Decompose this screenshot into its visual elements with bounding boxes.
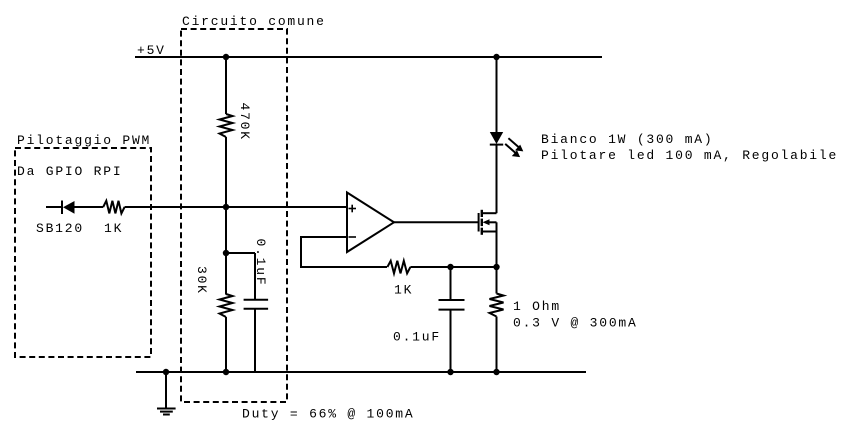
svg-text:1K: 1K	[394, 282, 413, 297]
svg-text:+5V: +5V	[137, 43, 166, 58]
transistor Q1 (N-MOSFET)	[479, 210, 497, 235]
svg-text:1K: 1K	[104, 221, 123, 236]
resistor 30K	[220, 294, 233, 317]
wire source to sense node	[496, 232, 498, 268]
wire 30K to ground rail	[225, 317, 227, 372]
svg-text:Pilotaggio PWM: Pilotaggio PWM	[17, 133, 151, 148]
wire cap to ground rail	[254, 309, 256, 372]
wire +5V to 470K	[225, 57, 227, 114]
resistor 470K	[220, 114, 233, 137]
svg-text:Circuito comune: Circuito comune	[182, 14, 326, 29]
junction ground rail	[163, 369, 169, 375]
wire cap2 vertical	[450, 267, 452, 300]
wire sense node to 1 Ohm	[496, 267, 498, 294]
wire cap branch vertical	[254, 253, 256, 300]
wire node to 30K	[225, 207, 227, 295]
wire ground stub	[165, 372, 167, 409]
wire cap branch horizontal	[226, 252, 255, 254]
wire +5V to LED	[496, 57, 498, 132]
wire op-amp output to gate	[394, 221, 479, 223]
resistor 1 Ohm	[490, 294, 504, 317]
dashed box Pilotaggio PWM	[15, 148, 151, 357]
wire feedback to sense node	[410, 266, 496, 268]
wire drain to LED	[496, 145, 498, 213]
junction cap branch	[223, 250, 229, 256]
wire cap2 to ground rail	[450, 310, 452, 372]
svg-text:Duty = 66% @ 100mA: Duty = 66% @ 100mA	[242, 406, 414, 421]
svg-text:470K: 470K	[237, 103, 252, 141]
junction cap2 / ground rail	[447, 369, 453, 375]
svg-text:Bianco 1W (300 mA): Bianco 1W (300 mA)	[541, 132, 713, 147]
svg-text:1 Ohm: 1 Ohm	[513, 299, 561, 314]
capacitor 0.1uF (filter)	[439, 300, 465, 310]
capacitor 0.1uF (divider)	[244, 300, 269, 309]
wire PWM input	[46, 206, 62, 208]
junction 30K / ground rail	[223, 369, 229, 375]
svg-text:0.1uF: 0.1uF	[253, 239, 268, 287]
wire 1 Ohm to ground rail	[496, 317, 498, 373]
wire +5V rail	[135, 56, 602, 58]
resistor 1K (input)	[103, 201, 124, 214]
junction +5V rail / LED	[493, 54, 499, 60]
svg-text:30K: 30K	[194, 266, 209, 295]
ground	[157, 409, 176, 415]
junction input / divider node	[223, 204, 229, 210]
wire op-amp inverting input	[301, 237, 387, 267]
svg-text:0.3 V @ 300mA: 0.3 V @ 300mA	[513, 315, 638, 330]
junction +5V rail / 470K	[223, 54, 229, 60]
svg-text:Pilotare led 100 mA, Regolabil: Pilotare led 100 mA, Regolabile	[541, 148, 838, 163]
junction sense node	[493, 264, 499, 270]
svg-text:SB120: SB120	[36, 221, 84, 236]
svg-text:Da GPIO RPI: Da GPIO RPI	[17, 164, 122, 179]
dashed box Circuito comune	[181, 29, 287, 402]
resistor 1K (feedback)	[387, 261, 410, 274]
wire 470K to node	[225, 137, 227, 207]
junction cap2 node	[447, 264, 453, 270]
svg-text:0.1uF: 0.1uF	[393, 330, 441, 345]
wire bottom ground rail	[136, 371, 586, 373]
LED D1	[490, 132, 524, 157]
junction 1 Ohm / ground rail	[493, 369, 499, 375]
diode SB120	[62, 201, 103, 215]
op-amp U1	[347, 193, 394, 253]
wire input to op-amp +	[125, 206, 347, 208]
